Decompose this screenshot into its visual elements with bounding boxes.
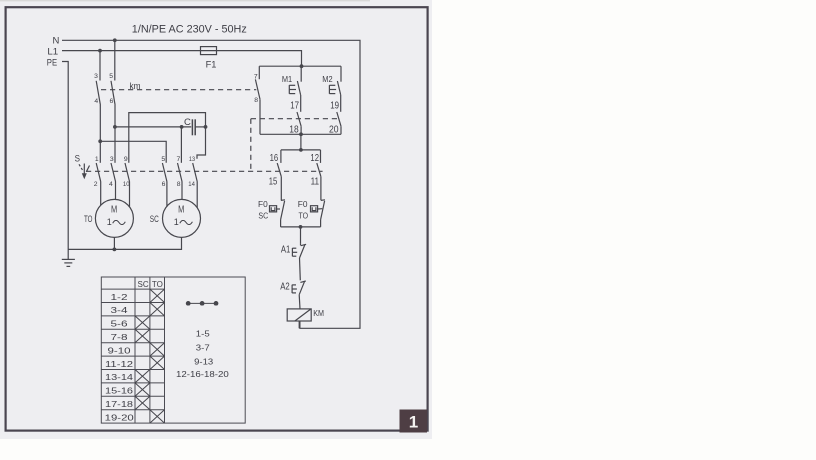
svg-text:13-14: 13-14 — [105, 373, 134, 382]
svg-text:F0: F0 — [258, 200, 268, 209]
svg-text:1: 1 — [107, 217, 112, 227]
svg-text:7-8: 7-8 — [111, 333, 129, 342]
svg-text:18: 18 — [289, 123, 299, 135]
svg-text:19-20: 19-20 — [105, 413, 135, 422]
svg-text:9: 9 — [124, 156, 128, 163]
svg-text:15: 15 — [269, 175, 278, 187]
svg-text:6: 6 — [162, 181, 166, 188]
svg-text:SC: SC — [138, 280, 149, 289]
svg-text:13: 13 — [189, 156, 195, 163]
svg-text:20: 20 — [329, 123, 339, 135]
svg-text:SC: SC — [258, 211, 268, 220]
svg-text:1-5: 1-5 — [196, 329, 210, 339]
svg-text:9-10: 9-10 — [108, 346, 132, 355]
svg-text:KM: KM — [313, 308, 324, 318]
svg-text:F0: F0 — [298, 200, 308, 209]
svg-text:N: N — [53, 36, 60, 47]
svg-text:12: 12 — [310, 152, 319, 164]
svg-text:TO: TO — [152, 280, 163, 289]
svg-text:S: S — [75, 153, 80, 164]
svg-text:3-4: 3-4 — [111, 306, 129, 315]
svg-text:2: 2 — [94, 181, 98, 188]
svg-text:3: 3 — [110, 156, 114, 163]
svg-text:14: 14 — [188, 181, 195, 188]
svg-text:km: km — [130, 81, 141, 91]
svg-text:4: 4 — [109, 181, 113, 188]
svg-text:1: 1 — [409, 413, 418, 432]
svg-text:19: 19 — [330, 100, 339, 112]
svg-text:5: 5 — [109, 73, 113, 80]
svg-text:10: 10 — [123, 181, 130, 188]
svg-text:3-7: 3-7 — [196, 342, 210, 352]
svg-text:C: C — [184, 117, 191, 128]
svg-text:11-12: 11-12 — [105, 360, 134, 369]
svg-text:1: 1 — [174, 217, 179, 227]
svg-text:8: 8 — [177, 181, 181, 188]
svg-text:7: 7 — [254, 73, 258, 80]
svg-text:17: 17 — [290, 100, 299, 112]
svg-text:SC: SC — [150, 214, 159, 224]
svg-text:A1: A1 — [281, 245, 291, 256]
svg-text:9-13: 9-13 — [194, 356, 213, 366]
svg-text:M: M — [111, 205, 117, 216]
svg-text:TO: TO — [299, 211, 309, 220]
svg-text:1: 1 — [95, 156, 99, 163]
svg-text:16: 16 — [270, 152, 279, 164]
svg-text:15-16: 15-16 — [105, 387, 134, 396]
svg-text:M: M — [178, 205, 184, 216]
svg-text:A2: A2 — [280, 282, 290, 293]
svg-text:1/N/PE AC 230V - 50Hz: 1/N/PE AC 230V - 50Hz — [132, 24, 247, 36]
svg-text:12-16-18-20: 12-16-18-20 — [176, 369, 229, 379]
svg-text:7: 7 — [177, 156, 181, 163]
svg-text:M2: M2 — [322, 75, 332, 84]
svg-text:TO: TO — [84, 214, 93, 224]
svg-text:3: 3 — [94, 73, 98, 80]
svg-text:1-2: 1-2 — [111, 293, 129, 302]
svg-text:4: 4 — [94, 98, 98, 105]
svg-text:PE: PE — [47, 57, 57, 68]
svg-text:F1: F1 — [206, 59, 217, 70]
svg-text:5-6: 5-6 — [111, 320, 129, 329]
svg-text:8: 8 — [254, 97, 258, 104]
svg-text:L1: L1 — [47, 46, 58, 57]
svg-text:M1: M1 — [282, 75, 292, 84]
svg-text:11: 11 — [311, 175, 320, 187]
svg-text:5: 5 — [161, 156, 165, 163]
svg-text:6: 6 — [110, 98, 114, 105]
svg-text:17-18: 17-18 — [105, 400, 134, 409]
